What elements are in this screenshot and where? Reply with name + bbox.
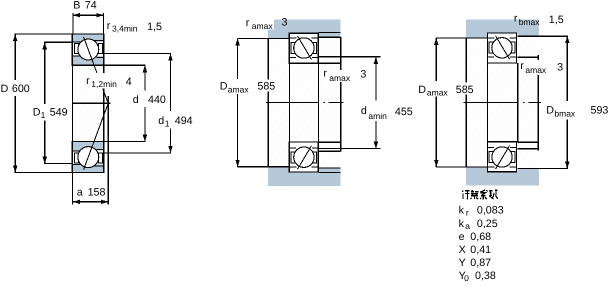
svg-text:e: e [459,231,465,243]
svg-text:3: 3 [557,62,563,74]
svg-text:d: d [133,94,139,106]
dimension Dbmax line (right) [566,36,568,101]
svg-text:bmax: bmax [554,108,576,118]
svg-text:0,41: 0,41 [470,244,491,256]
axis line (right figure) [464,101,518,103]
label r amax 3 (right middle) [520,63,563,75]
dimension B extension lines [72,13,74,34]
right figure hatch background [466,33,539,168]
svg-text:bmax: bmax [519,17,541,27]
bearing face lines (middle figure) [288,63,290,142]
bearing section bottom (middle figure) [289,142,318,172]
axis tick left figure [72,102,110,104]
bearing face lines (right figure) [487,63,489,142]
dimension a line [73,201,108,203]
svg-text:r: r [466,207,469,217]
bearing right face line [103,34,105,172]
housing inner edge vertical (middle) [267,38,269,166]
housing inner edge vertical (right) [465,38,467,167]
svg-text:amax: amax [228,84,250,94]
housing bottom band (right figure) [466,172,539,186]
svg-text:158: 158 [88,186,106,198]
label Damax 585 (middle) [219,80,250,94]
contact angle line top (left figure) [84,37,109,103]
svg-text:k: k [459,204,465,216]
svg-text:d: d [158,115,164,127]
svg-text:440: 440 [148,94,166,106]
dimension d1 line [170,54,172,112]
left figure hatch background [72,34,110,172]
housing top band (middle figure) [268,20,341,33]
housing top band (right figure) [466,19,539,33]
dimension Damax line (middle) [237,38,239,79]
dimension damin line (middle) [375,57,377,101]
svg-text:D: D [546,105,554,117]
svg-text:amax: amax [329,73,351,83]
table title (calculation factors, CJK) [462,190,498,200]
label r amax 3 (middle top) [245,19,275,30]
svg-text:Y: Y [459,257,466,269]
svg-text:D: D [220,81,228,93]
svg-text:amax: amax [525,65,547,75]
bearing left face line [71,34,73,204]
svg-text:455: 455 [395,106,413,118]
svg-text:amax: amax [252,21,274,31]
spacer line bottom (right) [518,168,568,170]
shoulder line top (right) [436,37,488,39]
svg-text:r: r [514,12,518,24]
svg-text:d: d [361,105,367,117]
shoulder line top (middle) [237,37,289,39]
svg-text:r: r [520,60,524,72]
label r amax 3 (middle right) [323,70,367,82]
spacer strip bottom (middle) [319,168,341,172]
housing bottom band (middle figure) [268,172,341,186]
ring face extension lines right (middle) [318,62,340,64]
svg-text:4: 4 [126,76,132,88]
svg-text:B: B [73,0,80,11]
db level lines bottom (right) [537,75,539,151]
svg-text:593: 593 [591,105,608,117]
bearing section top (right figure) [488,33,517,63]
dimension D line [14,34,16,80]
svg-text:3: 3 [282,16,288,28]
svg-text:a: a [465,221,470,231]
svg-text:1,2min: 1,2min [91,79,117,89]
dimension a extension line [107,96,109,205]
housing right edge vertical (middle) [340,37,342,70]
label Damax 585 (right) [417,83,449,97]
shoulder line bottom (right) [436,166,488,168]
svg-text:r: r [107,20,111,32]
dimension Damax line (right) [435,38,437,81]
contact angle line bottom (left figure) [84,103,109,169]
axis line (middle figure) [266,102,318,104]
svg-text:X: X [459,244,466,256]
svg-text:1,5: 1,5 [549,14,564,26]
da extension bottom (middle) [319,147,381,149]
bearing section top (middle figure) [289,33,318,63]
da extension top (middle) [319,56,381,58]
bearing section bottom (left figure) [72,142,103,173]
svg-text:0: 0 [464,273,469,283]
label r 1,2min 4 [85,73,133,89]
bearing section bottom (right figure) [488,142,517,172]
svg-text:r: r [246,17,250,29]
shoulder line bottom (middle) [237,166,289,168]
svg-text:0,38: 0,38 [475,270,496,282]
svg-text:a: a [77,186,83,198]
svg-text:1,5: 1,5 [147,21,162,33]
svg-text:585: 585 [257,81,275,93]
svg-text:3: 3 [360,69,366,81]
dimension B line [73,14,104,16]
label damin 455 (middle) [360,102,414,121]
svg-text:0,87: 0,87 [470,257,491,269]
db level line top (right) [518,56,539,58]
bearing section top (left figure) [72,34,103,65]
label Dbmax 593 (right) [545,103,580,118]
svg-text:1: 1 [165,118,170,128]
svg-text:1: 1 [41,110,46,120]
svg-text:D: D [418,84,426,96]
svg-text:549: 549 [50,106,68,118]
svg-text:3,4min: 3,4min [112,24,138,34]
svg-text:k: k [459,218,465,230]
svg-text:amax: amax [427,88,449,98]
spacer line top (right) [518,35,568,37]
housing bore line right bottom (middle) [318,171,340,173]
svg-text:494: 494 [175,115,193,127]
dimension D1 line [44,42,46,104]
svg-text:585: 585 [456,84,474,96]
housing bore line right top (middle) [318,32,340,34]
svg-text:74: 74 [85,0,97,11]
dimension d line [144,65,146,90]
svg-text:D: D [33,106,41,118]
svg-text:0,083: 0,083 [477,204,504,216]
svg-text:0,25: 0,25 [477,218,498,230]
spacer strip top (middle) [319,33,341,37]
svg-text:r: r [86,75,90,87]
middle figure hatch background [268,33,340,167]
svg-text:r: r [323,67,327,79]
svg-text:0,68: 0,68 [470,231,491,243]
svg-text:D: D [1,83,9,95]
svg-text:600: 600 [12,83,30,95]
svg-text:amin: amin [368,111,387,121]
